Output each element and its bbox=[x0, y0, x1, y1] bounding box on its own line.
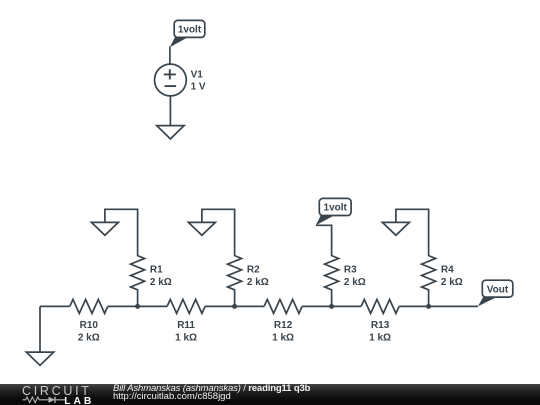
ground below V1 bbox=[157, 126, 184, 139]
svg-text:1 V: 1 V bbox=[191, 82, 206, 93]
svg-text:R13: R13 bbox=[371, 320, 390, 331]
junction at R3 bbox=[329, 304, 334, 309]
svg-text:1 kΩ: 1 kΩ bbox=[272, 333, 294, 344]
wire V1 top bbox=[169, 47, 171, 65]
wire V1 bottom bbox=[169, 96, 171, 126]
node 1volt flag at R3 bbox=[316, 198, 351, 225]
node Vout flag bbox=[478, 280, 513, 306]
ground above R1 bbox=[91, 222, 118, 235]
svg-text:R1: R1 bbox=[150, 264, 163, 275]
svg-text:2 kΩ: 2 kΩ bbox=[78, 333, 100, 344]
resistor R3 bbox=[316, 225, 366, 306]
svg-text:1 kΩ: 1 kΩ bbox=[369, 333, 391, 344]
svg-text:R12: R12 bbox=[274, 320, 293, 331]
resistor R4 bbox=[396, 209, 463, 306]
svg-text:R10: R10 bbox=[80, 320, 99, 331]
resistor R12 bbox=[264, 299, 302, 343]
svg-text:2 kΩ: 2 kΩ bbox=[441, 277, 463, 288]
svg-text:1volt: 1volt bbox=[324, 203, 348, 214]
resistor R10 bbox=[70, 299, 108, 343]
junction at R4 bbox=[426, 304, 431, 309]
svg-text:2 kΩ: 2 kΩ bbox=[247, 277, 269, 288]
resistor R11 bbox=[167, 299, 205, 343]
wire bottom rail bbox=[40, 305, 478, 307]
resistor R2 bbox=[202, 209, 269, 306]
junction at R2 bbox=[232, 304, 237, 309]
node 1volt flag at V1 bbox=[170, 20, 205, 47]
wire left rail end bbox=[39, 306, 41, 352]
resistor R13 bbox=[361, 299, 399, 343]
ground above R2 bbox=[188, 222, 215, 235]
svg-text:1volt: 1volt bbox=[178, 25, 202, 36]
svg-text:2 kΩ: 2 kΩ bbox=[150, 277, 172, 288]
svg-text:Vout: Vout bbox=[487, 284, 509, 295]
svg-text:V1: V1 bbox=[191, 70, 204, 81]
svg-text:R3: R3 bbox=[344, 264, 357, 275]
svg-text:R4: R4 bbox=[441, 264, 454, 275]
svg-text:R2: R2 bbox=[247, 264, 260, 275]
svg-text:2 kΩ: 2 kΩ bbox=[344, 277, 366, 288]
ground at left end bbox=[26, 352, 53, 365]
svg-text:1 kΩ: 1 kΩ bbox=[175, 333, 197, 344]
junction at R1 bbox=[135, 304, 140, 309]
voltage source V1 bbox=[155, 64, 206, 96]
svg-text:R11: R11 bbox=[177, 320, 195, 331]
resistor R1 bbox=[105, 209, 172, 306]
ground above R4 bbox=[382, 222, 409, 235]
